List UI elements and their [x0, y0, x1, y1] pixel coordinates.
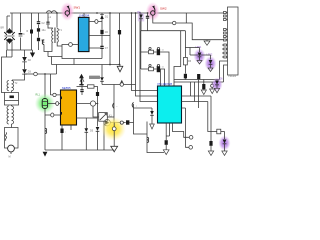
- diode D1: [100, 13, 109, 30]
- node dots: [56, 12, 148, 14]
- node circle yellow: [112, 127, 116, 131]
- wire below Q1: [44, 108, 46, 150]
- diode D2: [22, 50, 31, 69]
- fuse F2: [151, 6, 155, 16]
- capacitor C4: [37, 38, 45, 50]
- wire box1 top pin: [83, 13, 85, 17]
- AC source box: [5, 128, 19, 149]
- LED3 purple highlight: [212, 78, 223, 92]
- capacitor C7: [100, 46, 108, 58]
- diode D9: [126, 120, 129, 124]
- wire y108 to D7: [134, 107, 153, 109]
- wire to D8: [221, 131, 225, 133]
- capacitor C3: [37, 28, 46, 37]
- wire top bus: [10, 12, 228, 14]
- connector J1: [220, 7, 239, 82]
- node dot: [109, 64, 111, 66]
- node oval: [51, 113, 54, 117]
- motor M1: [8, 145, 15, 158]
- fuse F2 highlight: [146, 2, 160, 21]
- svg-text:M: M: [9, 156, 11, 159]
- wire node to step: [176, 23, 228, 40]
- capacitor C13: [184, 74, 187, 80]
- frame bottom left: [147, 122, 164, 153]
- capacitor C16: [60, 129, 67, 134]
- svg-text:74C14: 74C14: [228, 74, 236, 78]
- wire left edge drop: [2, 50, 13, 93]
- wire elbow from frame: [174, 31, 181, 86]
- feedback loop left: [72, 44, 78, 46]
- diode D3: [12, 69, 32, 80]
- pin y101.5 drop: [208, 102, 217, 132]
- wire x47 drop: [44, 74, 46, 99]
- small comp: [56, 102, 59, 106]
- wire x114: [113, 85, 115, 123]
- capacitor C12: [208, 141, 213, 155]
- wire pin3 loop: [89, 47, 102, 49]
- node circle mid: [120, 121, 123, 124]
- LED2: [207, 55, 214, 72]
- wire pin2: [89, 35, 110, 37]
- node circle: [173, 21, 176, 24]
- capacitor C8: [146, 13, 149, 31]
- transformer T1: [48, 13, 62, 46]
- opto node: [69, 43, 73, 47]
- svg-text:R: R: [27, 30, 29, 33]
- resistor R4: [77, 85, 98, 92]
- svg-text:NE555: NE555: [62, 86, 71, 90]
- diode D11: [100, 65, 104, 85]
- wire 555 bottom: [45, 125, 114, 150]
- capacitor C14: [96, 92, 99, 104]
- LED3: [214, 79, 223, 93]
- wire x211 down: [210, 96, 212, 141]
- pin marks: [60, 97, 62, 115]
- wire bus drop x186.3: [185, 13, 187, 23]
- diode D8: [222, 132, 227, 156]
- wire opto right: [107, 116, 114, 118]
- wire x110: [109, 13, 111, 65]
- fuse F1: [65, 6, 69, 17]
- wire from F2: [153, 15, 173, 23]
- green highlight Q1: [35, 94, 55, 114]
- wire top pin 4: [160, 69, 162, 86]
- purple highlight D8: [219, 136, 231, 151]
- wire terminal y95: [50, 74, 60, 95]
- node circle: [189, 136, 193, 140]
- capacitor C6: [100, 30, 108, 46]
- ground box2: [163, 150, 169, 155]
- capacitor C9: [80, 87, 83, 96]
- transformer T2: [7, 80, 18, 93]
- bridge rectifier BR1: [1, 13, 15, 50]
- power arrow: [120, 81, 124, 85]
- relay RL1: [36, 94, 48, 109]
- capacitor C5: [46, 13, 49, 29]
- snubber frame: [141, 31, 186, 69]
- wires bottom of leds: [174, 80, 224, 83]
- IC1 LNK304: [78, 13, 89, 51]
- snubber branch 2: [141, 64, 165, 86]
- wire opto left: [93, 106, 99, 117]
- wire to LED2: [190, 48, 211, 56]
- wire to LED1: [185, 47, 199, 49]
- LED4: [104, 120, 110, 126]
- resistor R1: [27, 13, 34, 50]
- svg-text:PIC16F628: PIC16F628: [158, 82, 173, 86]
- svg-text:C: C: [23, 33, 25, 36]
- junction dot: [44, 73, 46, 75]
- LED1 purple highlight: [194, 49, 206, 64]
- IC3 NE555: [61, 86, 77, 125]
- stub x213.5: [210, 82, 215, 94]
- stub x206.5: [201, 80, 206, 95]
- ground left: [30, 50, 35, 58]
- snubber branch 1: [141, 47, 169, 86]
- capacitor C15: [118, 30, 121, 34]
- wire left bus y50: [7, 49, 33, 51]
- box2 right pins: [182, 96, 212, 108]
- diode D7: [150, 108, 155, 129]
- wire pin1: [89, 21, 102, 23]
- wire Q1 to 555: [48, 103, 61, 105]
- wire yellow down to ground: [111, 131, 118, 152]
- wire yellow up: [113, 123, 115, 127]
- resistor R3: [184, 57, 192, 73]
- box2 bottom pins: [166, 123, 189, 140]
- black comp: [197, 74, 200, 79]
- svg-text:SW2: SW2: [160, 7, 167, 11]
- wire loop: [62, 45, 102, 59]
- capacitor C11: [165, 136, 170, 150]
- pot node: [77, 101, 99, 118]
- pin risers: [191, 80, 199, 109]
- node dot: [96, 12, 98, 14]
- wire loop drop: [73, 59, 75, 65]
- wire mid-left y74: [25, 73, 57, 75]
- wire x56 vertical: [56, 65, 58, 75]
- node circle: [189, 146, 193, 150]
- ground y64.5: [117, 65, 123, 72]
- oval node pin1: [95, 20, 98, 24]
- opto box K1: [99, 113, 113, 122]
- crystal plates: [113, 102, 138, 108]
- power arrow: [79, 74, 84, 85]
- ground mid-right: [204, 40, 210, 46]
- power arrow 555: [80, 78, 84, 87]
- gray label: [89, 76, 100, 79]
- IC2 cyan box: [158, 82, 182, 123]
- svg-text:BR: BR: [1, 27, 5, 30]
- diode D4 purple: [138, 12, 145, 31]
- transformer T2 secondary: [7, 105, 13, 128]
- LED1: [196, 47, 203, 64]
- small box k: [217, 129, 221, 134]
- yellow highlight: [101, 117, 126, 141]
- wire y122.5 row: [110, 122, 133, 124]
- wire y84.5: [102, 84, 136, 86]
- node circle: [120, 83, 123, 86]
- loop B1: [42, 40, 62, 65]
- LED2 purple highlight: [205, 56, 217, 71]
- wire K1 drop: [103, 121, 105, 150]
- filter box with capacitor: [5, 93, 19, 106]
- svg-text:SW1: SW1: [74, 6, 81, 10]
- capacitor C2: [37, 13, 45, 28]
- wire x119.5: [119, 13, 121, 65]
- stub 555 pin: [70, 125, 72, 130]
- three verticals to IC2: [132, 13, 158, 102]
- pin y108 drop: [186, 108, 189, 147]
- svg-text:10u: 10u: [42, 29, 47, 32]
- lamp node: [34, 72, 38, 76]
- node dot: [109, 12, 111, 14]
- terminal circle: [53, 93, 56, 96]
- diode D10: [85, 118, 89, 150]
- fuse F1 highlight: [60, 2, 74, 21]
- svg-text:RL1: RL1: [36, 94, 41, 97]
- capacitor C1: [19, 13, 25, 50]
- wire x133.5: [134, 104, 148, 134]
- wire mid bus y64.5: [52, 64, 120, 66]
- wire 555 right pin: [77, 117, 98, 119]
- inductor L1: [47, 11, 57, 19]
- diode D5: [90, 118, 99, 150]
- node dot: [119, 64, 121, 66]
